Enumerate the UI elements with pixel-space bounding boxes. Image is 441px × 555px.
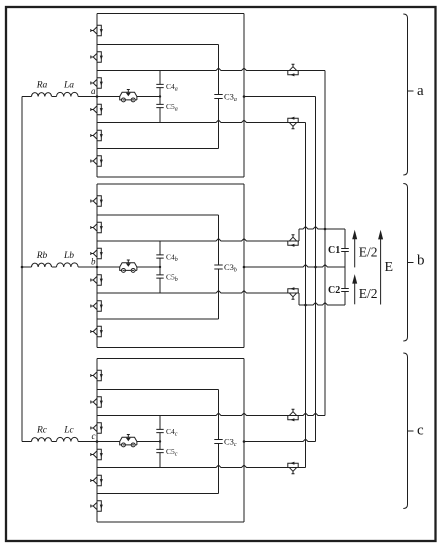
switch S6b (91, 326, 103, 336)
svg-text:C4b: C4b (166, 253, 178, 264)
wire: phase b leg (96, 184, 98, 348)
switch S2c (91, 397, 103, 407)
switch S3a (91, 78, 103, 88)
resistor Rc (32, 438, 52, 442)
switch S3c (91, 423, 103, 433)
junction cell cap midpoint a (159, 95, 161, 97)
svg-text:C4c: C4c (166, 427, 178, 438)
switch T2a (lower clamp) (288, 117, 298, 129)
bidirectional switch phase c (120, 435, 137, 447)
capacitor C4a (156, 84, 163, 87)
bracket phase c (403, 353, 407, 509)
wire: phase b lower dc link line (97, 291, 299, 293)
svg-text:E: E (385, 260, 394, 275)
wire: Lb to node b (78, 266, 97, 268)
wire: phase a output tap (244, 96, 316, 98)
switch S2b (91, 222, 103, 232)
wire: outer loop right edge phase c (243, 359, 245, 523)
wire: outer loop right edge phase a (243, 14, 245, 178)
wire: phase a leg (96, 14, 98, 178)
wire: phase b jog up to + rail (298, 229, 300, 241)
switch T2c (lower clamp) (288, 462, 298, 474)
svg-text:C5a: C5a (166, 102, 178, 113)
wire: phase c output tap (244, 439, 316, 441)
node b (96, 266, 99, 269)
svg-text:a: a (417, 83, 424, 99)
node a (96, 95, 99, 98)
junction cell cap midpoint c (159, 440, 161, 442)
source neutral vertical wire (21, 97, 23, 442)
capacitor C5b (156, 275, 163, 278)
svg-text:E/2: E/2 (359, 286, 378, 301)
wire: phase c bottom rail (97, 521, 244, 523)
switch T1b (upper clamp) (288, 235, 298, 247)
svg-text:Lb: Lb (63, 251, 74, 261)
arrow E/2 upper (354, 239, 356, 268)
wire: phase c lower dc link line (97, 465, 306, 467)
wire: phase b top rail (97, 183, 244, 185)
wire: inner loop right edge phase a (218, 45, 220, 149)
wire: + rail of dc link (299, 227, 345, 229)
wire: source line into Rb (22, 266, 32, 268)
capacitor C4c (156, 429, 163, 432)
switch S1c (91, 370, 103, 380)
switch S2a (91, 52, 103, 62)
capacitor C1 (341, 249, 349, 252)
arrow E/2 lower (354, 283, 356, 304)
junction M rail / M bus (314, 266, 317, 269)
wire: phase c fifth rail (97, 493, 219, 495)
wire: dc link right edge (344, 229, 346, 305)
wire: phase a fifth rail (97, 148, 219, 150)
svg-text:C3b: C3b (224, 262, 237, 274)
capacitor C3b (214, 265, 222, 269)
svg-text:C3c: C3c (224, 437, 237, 449)
wire: phase c second rail (97, 389, 219, 391)
wire: Rb to Lb (52, 266, 57, 268)
resistor Rb (32, 263, 52, 267)
wire: node b line to cell capacitors (97, 266, 160, 268)
wire: phase b fifth rail (97, 318, 219, 320)
svg-text:C1: C1 (328, 245, 340, 256)
switch S6a (91, 156, 103, 166)
switch S5b (91, 301, 103, 311)
capacitor C3c (214, 440, 222, 444)
wire: - rail of dc link (299, 303, 345, 305)
switch S4b (91, 275, 103, 285)
wire: phase a lower dc link line (97, 120, 306, 122)
bracket phase b (403, 184, 407, 342)
switch S1b (91, 196, 103, 206)
wire: Lc to node c (78, 441, 97, 443)
switch S5a (91, 130, 103, 140)
svg-text:b: b (91, 257, 96, 267)
arrow E (380, 239, 382, 305)
capacitor C3a (214, 95, 222, 99)
switch S6c (91, 501, 103, 511)
svg-text:C5c: C5c (166, 447, 178, 458)
junction neutral / phase b input (21, 266, 24, 269)
wire: phase a bottom rail (97, 176, 244, 178)
wire: bus vertical M (phase a tap to phase c tap) (315, 97, 317, 442)
switch S4a (91, 104, 103, 114)
junction on outer edge phase a (243, 95, 246, 98)
switch S3b (91, 248, 103, 258)
wire: node a line to cell capacitors (97, 96, 160, 98)
wire: phase a upper dc link line (97, 68, 325, 70)
wire: phase b upper dc link line (97, 239, 299, 241)
wire: cell capacitor branch phase c (159, 416, 161, 468)
wire: bus vertical N (phase a lower to phase c lower) (305, 123, 307, 468)
svg-text:c: c (92, 431, 96, 441)
svg-text:C4a: C4a (166, 82, 178, 93)
wire: phase a top rail (97, 13, 244, 15)
wire: phase c leg (96, 359, 98, 523)
switch S5c (91, 475, 103, 485)
wire: source line into Rc (22, 441, 32, 443)
wire: phase b bottom rail (97, 347, 244, 349)
svg-text:Rc: Rc (36, 426, 48, 436)
switch T1c (upper clamp) (288, 409, 298, 421)
switch S4c (91, 449, 103, 459)
svg-text:C2: C2 (328, 285, 340, 296)
svg-text:C5b: C5b (166, 273, 178, 284)
wire: inner loop right edge phase b (218, 215, 220, 319)
bidirectional switch phase b (120, 260, 137, 272)
wire: La to node a (78, 96, 97, 98)
wire: Ra to La (52, 96, 57, 98)
inductor La (57, 92, 79, 96)
wire: phase c top rail (97, 358, 244, 360)
switch T2b (lower clamp) (288, 287, 298, 299)
junction N rail / N bus (304, 304, 307, 307)
svg-text:Ra: Ra (36, 81, 48, 91)
capacitor C5a (156, 104, 163, 107)
svg-text:C3a: C3a (224, 92, 237, 104)
junction on outer edge phase c (243, 440, 246, 443)
wire: phase c upper dc link line (97, 413, 325, 415)
wire: outer loop right edge phase b (243, 184, 245, 348)
inductor Lc (57, 437, 79, 441)
wire: source line into Ra (22, 96, 32, 98)
switch T1a (upper clamp) (288, 64, 298, 76)
inductor Lb (57, 263, 79, 267)
capacitor C4b (156, 255, 163, 258)
svg-text:Lc: Lc (63, 426, 74, 436)
svg-text:b: b (417, 253, 425, 269)
svg-text:c: c (417, 423, 424, 439)
resistor Ra (32, 93, 52, 97)
wire: inner loop right edge phase c (218, 390, 220, 494)
svg-text:Rb: Rb (36, 251, 48, 261)
wire: phase b output tap (244, 265, 345, 267)
wire: node c line to cell capacitors (97, 441, 160, 443)
wire: bus vertical P (phase a upper to phase c upper) (324, 71, 326, 416)
junction P rail / P bus (324, 228, 327, 231)
capacitor C5c (156, 449, 163, 452)
capacitor C2 (341, 289, 349, 292)
wire: cell capacitor branch phase b (159, 241, 161, 293)
wire: phase b second rail (97, 214, 219, 216)
bidirectional switch phase a (120, 90, 137, 102)
svg-text:La: La (63, 81, 74, 91)
bracket phase a (403, 14, 407, 175)
switch S1a (91, 25, 103, 35)
svg-text:E/2: E/2 (359, 245, 378, 260)
wire: phase a second rail (97, 44, 219, 46)
junction cell cap midpoint b (159, 266, 161, 268)
svg-text:a: a (91, 86, 96, 96)
wire: phase b jog down to - rail (298, 293, 300, 305)
wire: cell capacitor branch phase a (159, 71, 161, 123)
junction on outer edge phase b (243, 266, 246, 269)
wire: Rc to Lc (52, 441, 57, 443)
node c (96, 440, 99, 443)
